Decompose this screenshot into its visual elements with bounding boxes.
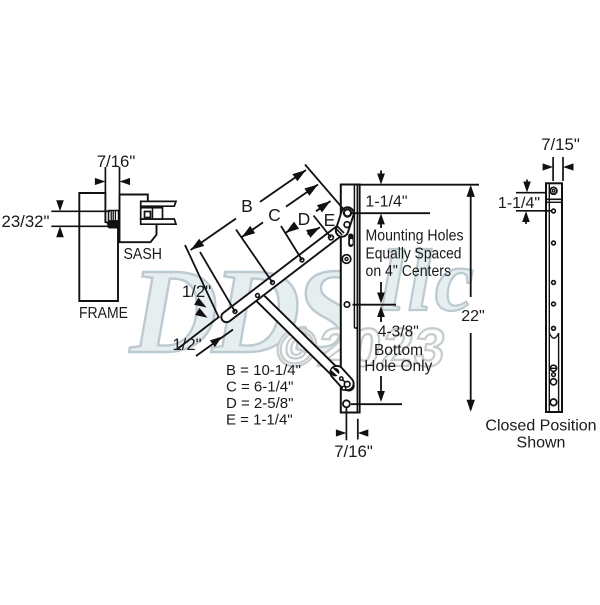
right track lock stud [550,365,556,371]
svg-text:1-1/4": 1-1/4" [365,194,407,211]
svg-text:7/16": 7/16" [334,442,373,461]
svg-text:Closed Position: Closed Position [485,418,596,435]
right 1-1/4 dim upper line [516,192,546,194]
svg-text:1/2": 1/2" [172,335,201,354]
right track (closed) [546,183,562,412]
arrow to bottom hole line [380,376,382,398]
svg-text:23/32": 23/32" [2,212,50,231]
dimension C [242,222,263,237]
support arm link [251,289,356,393]
svg-text:Bottom: Bottom [374,342,423,359]
svg-text:B = 10-1/4": B = 10-1/4" [226,362,301,379]
arrow to 4in line [380,282,382,298]
sash channel screw hole [145,212,151,218]
svg-text:C = 6-1/4": C = 6-1/4" [226,379,293,396]
svg-text:on 4" Centers: on 4" Centers [366,263,452,280]
pivot extension line [305,165,344,210]
shoe rivets [341,379,347,385]
dimension D [286,227,295,233]
sash extrusion body [120,195,157,243]
svg-text:7/16": 7/16" [97,152,136,171]
frame cross-section outline [79,193,118,301]
right 1-1/4 arrows [523,182,531,193]
arm end link to pivot [334,206,355,239]
svg-text:E = 1-1/4": E = 1-1/4" [226,412,293,429]
ext line to hole D [281,226,302,260]
lower 1/2 arrow [210,337,222,348]
svg-text:1/2": 1/2" [182,282,211,301]
right 7/15 ticks [552,157,554,181]
dimension E arrow [308,227,321,234]
end link rivet [344,222,350,228]
sash channel top bar [141,201,176,206]
track mounting hole w/ washer [342,255,351,264]
dim 23/32 lower line [51,225,111,227]
ext line to hole1 (1/2") [200,252,235,312]
upper 1/2 arrows [194,298,206,308]
watermark 2023 [273,318,451,378]
right track pivot [550,187,557,194]
sash channel web [141,208,163,219]
right 7/15 arrows [543,163,554,170]
svg-text:SASH: SASH [124,246,163,263]
track bottom hole [343,400,350,407]
svg-text:1-1/4": 1-1/4" [498,195,540,212]
keeper stud (dark) in slot [348,234,353,248]
ext line to hole E [314,216,332,238]
main hinge arm [219,222,348,324]
svg-text:D = 2-5/8": D = 2-5/8" [226,395,293,412]
second dim line (1-1/4) [351,212,430,214]
svg-text:B: B [241,196,253,216]
ext line to hole C [236,230,273,283]
shoe stud (dark) [329,366,341,378]
svg-text:FRAME: FRAME [79,305,128,322]
svg-text:Equally Spaced: Equally Spaced [366,246,462,263]
ext line to arm end (B) [185,245,219,318]
lower 1/2 tick lines [178,317,220,349]
mid hole dim line [353,304,397,306]
right track holes [552,209,556,213]
bottom 7/16 dim [345,408,347,441]
svg-text:Hole Only: Hole Only [364,358,432,375]
dim 23/32 upper line [51,210,110,212]
svg-text:C: C [268,205,281,225]
svg-text:4-3/8": 4-3/8" [378,324,419,341]
dim 7/16 tick left [104,167,106,192]
svg-text:22": 22" [461,308,484,325]
svg-text:D: D [298,209,311,229]
support arm pivot hole [256,294,260,298]
bottom hole dim line [351,403,402,405]
dim 7/16 tick right [119,167,121,194]
arm top pivot [344,209,351,216]
center track channel [341,185,360,413]
dim 23/32 arrows [56,200,64,211]
dim 7/16 arrows [95,178,106,185]
right track bottom hole [550,399,557,406]
right 1-1/4 dim lower line [516,210,552,212]
dimension B [191,219,236,251]
svg-text:E: E [324,210,336,230]
svg-text:7/15": 7/15" [541,135,580,154]
shoe end (wide) [328,363,357,393]
hinge pivot block (dark) [108,221,119,228]
sash channel bottom bar [141,219,176,224]
svg-text:Shown: Shown [517,435,566,452]
hinge stack laminations [109,211,119,222]
arm cut lines [337,226,345,234]
track mounting hole mid [344,302,349,307]
22 inch dim [470,187,472,297]
arm rivet holes [233,310,237,314]
top dim line [360,184,479,186]
svg-text:Mounting Holes: Mounting Holes [366,227,464,244]
